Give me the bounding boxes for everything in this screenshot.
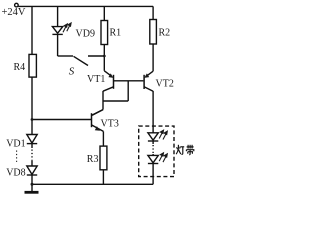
svg-text:VD9: VD9: [76, 28, 95, 39]
svg-text:+24V: +24V: [2, 7, 26, 18]
svg-text:VT1: VT1: [87, 74, 105, 85]
svg-text:VT3: VT3: [101, 119, 119, 130]
svg-text:R4: R4: [14, 62, 26, 73]
svg-text:S: S: [69, 66, 75, 78]
svg-text:R1: R1: [110, 28, 122, 39]
svg-text:VD1: VD1: [6, 139, 25, 150]
svg-text:R3: R3: [87, 154, 99, 165]
svg-text:VT2: VT2: [156, 79, 174, 90]
svg-text:VD8: VD8: [6, 167, 25, 178]
svg-text:R2: R2: [159, 28, 171, 39]
